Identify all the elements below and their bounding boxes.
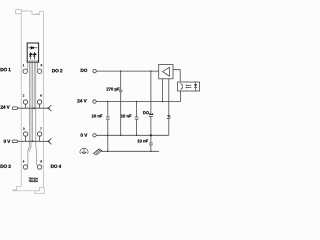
label DO 3 [1,165,11,168]
junction dots 24V rail [107,101,109,103]
wire driver to opto [173,70,180,82]
label 10nF D [137,139,148,142]
stub pin6 [39,104,41,108]
opto LED [194,82,197,91]
label 270pF [106,88,119,92]
junction dots earth rail [107,151,109,153]
24V wire-end ferrule [12,107,17,110]
driver box U1 [159,65,173,79]
junction 24V tap [33,107,35,109]
0V wire-end ferrule [12,140,17,143]
DO rail [96,70,158,72]
clamp circle pin8 [37,165,41,169]
capacitor DO line D upper [149,71,153,135]
diode D1 in LED box [28,46,37,49]
capacitor 10nF line C [135,102,139,136]
stub pin3 [25,136,27,141]
24V field line [18,107,49,109]
0V rail [96,134,169,136]
power jumper contact fork 24V [49,105,52,111]
clamp circle pin3 [23,132,27,136]
label DO 1..4 [143,111,149,114]
label DO 4 [51,165,61,168]
stub pin2 to 24V line [25,104,27,108]
junction 0V tap [32,140,34,142]
label 10nF A [92,114,103,117]
junction dots DO rail [120,70,122,72]
wire bundle [27,60,39,166]
clamp circle pin6 [37,100,41,104]
label 24V left [1,105,10,108]
power jumper contact fork 0V [49,138,52,144]
DIN rail contact symbol [93,149,102,155]
opto light arrows [187,85,191,87]
earth dome symbol [80,148,88,154]
capacitor 10nF line A [106,102,110,152]
clamp circle pin7 [37,132,41,136]
clamp circle pin2 [23,100,27,104]
label 0V left [4,140,11,143]
terminal 24V [93,100,96,103]
capacitor 270pF line B [119,71,122,135]
0V field line [18,140,49,142]
earth rail [101,150,159,152]
LED L2 [33,52,36,60]
driver triangle [163,67,170,76]
terminal 0V [93,134,96,137]
opto phototransistor [180,83,182,90]
suppressor diode Z [167,115,170,117]
suppressor line driver to 0V [168,79,170,136]
clamp circle pin1 [23,69,27,73]
label DO 2 [52,69,62,72]
clamp circle pin5 [37,69,41,73]
junction dots 0V rail [107,135,109,137]
driver pin to 24V [161,79,163,102]
stub pin7 [39,136,41,141]
label DO schematic [81,69,87,72]
label 24V schematic [77,99,86,102]
opto pin to 24V [180,91,182,102]
clamp circle pin4 [23,165,27,169]
terminal DO [93,69,96,72]
LED box U-LED [27,43,38,62]
order number text [29,178,38,182]
label 0V schematic [81,133,88,136]
optocoupler box U2 [178,82,200,91]
LED L1 [29,52,32,60]
capacitor 10nF line D lower [149,135,153,151]
module housing outline [13,10,44,194]
label DO 1 [1,68,11,71]
24V rail [96,101,180,103]
label 10nF C [121,114,132,117]
pin numbers [23,64,42,162]
